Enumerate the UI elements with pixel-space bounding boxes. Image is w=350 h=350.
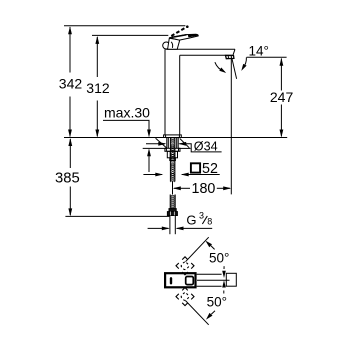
extension line 312 [92, 34, 168, 36]
lever neck inner curve [171, 42, 173, 48]
svg-text:G: G [186, 213, 196, 228]
arrow 342 bottom [68, 130, 72, 138]
faucet body right edge [179, 55, 181, 135]
arrow 247 bottom [280, 130, 284, 138]
phantom diamond bottom [176, 288, 194, 306]
top view lever tick [170, 278, 172, 283]
arrow 385 top [68, 138, 72, 146]
spout top edge [166, 48, 235, 50]
top view spout bar bottom [197, 285, 222, 287]
base plate ticks [165, 135, 167, 138]
swivel arrow upper leader [211, 246, 215, 250]
dia34 arrow left [158, 142, 166, 146]
swivel diagonal lower [186, 301, 209, 325]
sq52 arrow right [181, 173, 189, 177]
G38 leader left [148, 227, 169, 229]
extension line 14deg / 247 top [247, 56, 287, 58]
dia34 arrow right [178, 142, 186, 146]
hose gap centerline [172, 182, 174, 195]
arrow 247 top [280, 58, 284, 66]
lever pivot circle [163, 42, 170, 49]
extension line top 342 [64, 25, 185, 27]
arrow max30 down [147, 130, 151, 138]
arrow 312 bottom [95, 130, 99, 138]
svg-text:247: 247 [270, 89, 294, 105]
svg-text:50°: 50° [207, 294, 227, 309]
deck top line [64, 137, 287, 139]
swivel arc dash bottom [223, 291, 225, 294]
dia34 leader left [146, 143, 165, 145]
dim line 180 [174, 187, 190, 189]
swivel arrow lower leader [211, 311, 215, 314]
nut [167, 151, 177, 158]
max30 lower shaft [148, 155, 150, 173]
aerator tick [227, 56, 229, 59]
dia34 leader right [179, 144, 221, 152]
svg-text:385: 385 [55, 170, 80, 186]
lever neck [168, 38, 180, 49]
swivel diagonal upper [186, 237, 209, 262]
phantom lever dashes [171, 27, 186, 36]
faucet body left edge [164, 49, 166, 135]
top view centerline [197, 279, 230, 281]
sq52 box glyph [191, 163, 200, 172]
arrow 312 top [95, 36, 99, 44]
arrow 180 left [173, 186, 181, 190]
dimension line 342 [69, 27, 71, 73]
arrow 342 top [68, 26, 72, 34]
top view inner square [186, 277, 194, 285]
faucet base plate [164, 135, 182, 138]
G38 arrow right [176, 227, 184, 231]
sq52 arrow left [155, 173, 163, 177]
G38 leader underline [177, 227, 212, 229]
spout bottom edge [180, 54, 233, 56]
lever paddle dark tip [188, 34, 198, 37]
swivel arrow upper [222, 271, 226, 278]
sq52 leader left [143, 174, 162, 176]
swivel arrow lower [222, 280, 226, 287]
spray arc right [243, 57, 247, 68]
spray arc left arrowhead [219, 68, 226, 74]
nut facets [169, 151, 171, 158]
aerator [226, 55, 234, 58]
spray arc left [215, 62, 225, 72]
swivel arc dash top [223, 266, 225, 269]
top view spout bar top [197, 273, 222, 275]
dimension line 312 [96, 37, 98, 77]
spray arc right arrowhead [241, 64, 246, 71]
top view thick box [165, 273, 195, 287]
deck bottom line right [178, 147, 190, 149]
svg-text:312: 312 [86, 80, 110, 96]
arrow max30 up [147, 148, 151, 156]
dimension line 385 [69, 139, 71, 168]
shank tube right wall [176, 138, 178, 149]
lever paddle [169, 34, 198, 40]
G38 fraction slash [202, 216, 207, 224]
svg-text:Ø34: Ø34 [194, 139, 218, 153]
svg-text:14°: 14° [249, 43, 269, 58]
svg-text:342: 342 [59, 75, 83, 91]
svg-text:180: 180 [192, 181, 216, 197]
svg-text:3: 3 [199, 211, 204, 221]
svg-text:max.30: max.30 [104, 104, 150, 120]
deck hatch right [180, 139, 190, 148]
lever paddle top edge [172, 35, 187, 38]
shank tube left wall [166, 138, 168, 149]
svg-text:50°: 50° [209, 250, 229, 265]
dimension line 247 [280, 59, 282, 91]
collar [170, 158, 176, 161]
outlet extension line [230, 59, 232, 195]
svg-text:52: 52 [202, 161, 218, 177]
washer [165, 148, 180, 151]
arrow 180 right [223, 186, 231, 190]
sq52 leader right underline [182, 174, 220, 176]
deck hatch left [156, 138, 167, 147]
max30 underline and leader [103, 120, 149, 131]
phantom diamond top [176, 257, 194, 275]
hose nut G38 [169, 209, 176, 212]
top view end box [226, 273, 236, 286]
spout tip edge [233, 49, 235, 55]
svg-text:8: 8 [207, 216, 212, 226]
threaded rod [170, 138, 175, 182]
spray angle line 14deg [232, 59, 237, 79]
hose braid [170, 195, 175, 209]
G38 arrow left [162, 227, 170, 231]
deck bottom line [143, 147, 167, 149]
hose end line [65, 215, 169, 217]
arrow 385 bottom [68, 208, 72, 216]
phantom lever tip dot [186, 25, 189, 28]
hose end tube [169, 215, 171, 234]
